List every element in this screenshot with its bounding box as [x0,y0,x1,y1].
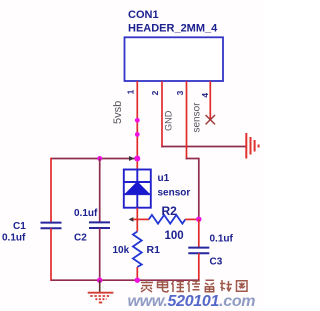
svg-text:1: 1 [125,89,135,94]
watermark chinese characters [141,280,247,293]
arrow tick at R2 row left end [129,217,134,222]
ground symbol bottom [88,280,114,302]
svg-text:u1: u1 [158,173,170,184]
svg-text:R2: R2 [162,204,178,218]
capacitor C1 [41,223,62,229]
sensor U1 body [124,170,151,208]
svg-text:2: 2 [150,90,160,95]
wire R1 bottom lead [136,267,138,281]
wire C2 bottom lead [99,228,101,281]
wire left rail vertical to C1 [50,158,52,223]
capacitor C2 [89,222,110,228]
svg-text:0.1uf: 0.1uf [74,208,98,219]
wire ground rail bottom [51,279,200,281]
wire pin4 stub [209,81,211,120]
junction dot rail / C2 / ground [97,278,102,283]
ground symbol right (rotated) [246,133,258,159]
wire pin1 vertical (5vsb) [136,81,138,171]
junction dot rail / R1 [135,278,140,283]
wire R2 left lead [133,218,149,220]
svg-text:C1: C1 [13,221,26,232]
svg-text:www.520101.com: www.520101.com [128,293,256,310]
svg-text:C2: C2 [74,233,87,244]
svg-text:5vsb: 5vsb [112,101,124,124]
wire u1 bottom lead through R2 node down to R1 [136,208,138,232]
arrow tick at 5vsb rail end [129,156,134,161]
svg-text:sensor: sensor [191,102,202,133]
wire sensor net vertical down to R2/C3 [198,158,200,220]
wire 5vsb rail horizontal [51,158,137,160]
svg-text:R1: R1 [147,244,161,256]
svg-text:3: 3 [175,90,185,95]
connector CON1 body [125,37,224,81]
wire pin3 vertical (sensor) [186,81,188,159]
svg-text:100: 100 [165,230,184,242]
wire C2 top lead [99,159,101,223]
junction dot 5vsb rail / pin1 wire [134,156,140,162]
wire pin3 bend horizontal [186,158,199,160]
junction dot 5vsb rail / C2 branch [97,156,102,161]
wire pin2 to right ground horizontal [161,146,246,148]
svg-text:GND: GND [163,110,173,131]
svg-text:4: 4 [200,93,210,98]
wire R2 right lead [185,218,199,220]
svg-text:10k: 10k [113,245,130,256]
svg-text:0.1uf: 0.1uf [2,233,26,244]
svg-text:sensor: sensor [158,188,191,199]
wire C1 bottom lead [50,228,52,281]
svg-text:0.1uf: 0.1uf [210,234,234,245]
junction dot on pin1 wire (upper) [135,118,140,123]
junction dot on pin1 wire (lower) [135,132,140,137]
wire pin2 vertical [161,81,163,147]
no-connect X on pin4 [206,115,215,124]
wire C3 top lead [198,219,200,247]
resistor R2 [149,215,186,224]
junction dot sensor/R2/C3 [196,217,201,222]
wire C3 bottom lead [198,253,200,281]
svg-text:HEADER_2MM_4: HEADER_2MM_4 [128,23,218,35]
svg-text:CON1: CON1 [128,9,159,21]
capacitor C3 [188,248,209,254]
svg-text:C3: C3 [210,257,223,268]
resistor R1 [133,232,142,268]
